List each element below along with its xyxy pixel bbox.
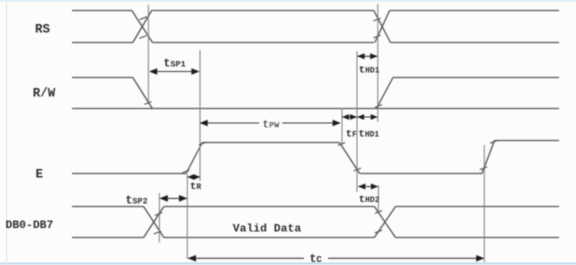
dimension arrows <box>149 53 484 261</box>
arrow tR <box>187 174 200 180</box>
E rising edge <box>186 143 202 174</box>
signal DB0-DB7 : bottom rail <box>72 237 559 239</box>
tick marks on DB crossover X1 <box>154 213 162 234</box>
tick mark on R/W falling edge <box>144 102 151 105</box>
svg-text:DB0-DB7: DB0-DB7 <box>6 220 54 232</box>
tick marks on E falling edge <box>338 143 361 171</box>
measure vertical at E fall bottom (x=357) <box>356 51 358 192</box>
signal RS : top rail (high) <box>72 10 559 12</box>
svg-text:Valid Data: Valid Data <box>233 224 302 236</box>
DB crossover X1 <box>144 207 164 238</box>
signal E : high rail <box>202 142 339 144</box>
svg-text:tR: tR <box>190 181 201 193</box>
measure vertical at E fall start (x=342) <box>341 108 343 143</box>
svg-text:tSP1: tSP1 <box>164 58 186 71</box>
label tPW <box>260 116 283 130</box>
signal E : low rail left <box>72 173 186 175</box>
E second rising edge <box>482 141 495 174</box>
measure vertical at DB change (x=378 lower) <box>377 186 379 214</box>
arrow tHD2 <box>358 184 378 190</box>
R/W falling edge <box>133 78 153 109</box>
arrow tPW <box>200 120 341 127</box>
signal DB0-DB7 : top rail <box>72 206 559 208</box>
measure vertical at DB valid (x=159) <box>158 193 160 243</box>
signal E : low rail right <box>360 173 482 175</box>
top blue border line <box>0 0 576 2</box>
signal R/W : low rail <box>72 108 559 110</box>
signal R/W : high rail right <box>393 77 559 79</box>
signal E : high rail right <box>495 140 560 142</box>
tick marks on RS crossover X2 <box>373 18 380 38</box>
svg-text:tHD1: tHD1 <box>359 65 380 77</box>
arrow tSP1 <box>149 68 200 75</box>
svg-text:RS: RS <box>35 23 51 37</box>
measure vertical at RS change (x=148) <box>147 5 149 104</box>
arrow tHD1 (lower) <box>357 114 378 120</box>
svg-text:tHD2: tHD2 <box>359 194 380 206</box>
svg-text:tF: tF <box>346 129 357 141</box>
svg-text:R/W: R/W <box>33 87 56 101</box>
RS crossover X2 <box>374 11 391 43</box>
svg-text:E: E <box>36 168 44 182</box>
left faint page edge <box>6 0 7 265</box>
arrow tc <box>188 255 485 262</box>
tick mark on R/W rising edge <box>375 105 382 108</box>
svg-text:tSP2: tSP2 <box>126 195 148 208</box>
svg-text:tPW: tPW <box>263 120 281 132</box>
bottom blue border line <box>0 262 576 264</box>
measure vertical at RS second change (x=378) <box>377 4 379 122</box>
RS crossover X1 <box>132 11 153 43</box>
svg-text:tC: tC <box>310 253 323 265</box>
signal R/W : high rail left <box>72 77 133 79</box>
tick marks on E rising edge <box>182 142 206 173</box>
arrow tSP2 <box>160 195 188 202</box>
DB crossover X2 <box>374 207 395 238</box>
E falling edge <box>340 143 360 174</box>
measure vertical at E rise top (x=200) <box>199 50 201 181</box>
measure vertical at E second rise (x=484) <box>483 145 485 262</box>
arrow tF <box>342 114 357 120</box>
tick marks on RS crossover X1 <box>139 17 146 39</box>
tick marks on E second rising edge <box>480 140 498 169</box>
R/W rising edge <box>377 78 394 109</box>
measure vertical at E rise bottom (x=187) <box>186 174 188 259</box>
arrow tHD1 (top) <box>357 53 377 59</box>
signal RS : bottom rail (low) <box>72 42 559 44</box>
tick marks on DB crossover X2 <box>375 211 382 233</box>
svg-text:tHD1: tHD1 <box>359 129 380 141</box>
